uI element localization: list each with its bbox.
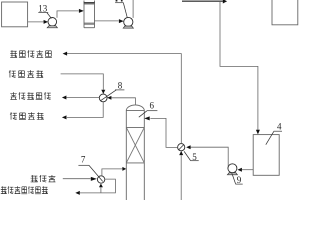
wire column6 vapor line to condenser 8 [111,98,135,105]
wire mixer5 left to column 6 [150,118,177,147]
svg-text:8: 8 [118,81,123,91]
arrow down into condenser 8 [101,90,105,94]
arrow condensate recovery [62,96,67,100]
arrow into column 6 right side [144,116,150,120]
label 冷凝液回收 [10,92,50,100]
wire mixer5 bottom feed (from below image) [180,155,182,200]
arrow into vessel 4 top [256,130,260,135]
svg-text:9: 9 [237,175,242,185]
svg-text:6: 6 [150,101,155,111]
arrow into mixer 5 right [186,145,190,149]
wire column C2 outlet [95,20,119,22]
arrow cooling water out [62,115,67,119]
arrow up into mixer 5 [179,151,183,155]
wire steam in [63,178,91,180]
wire heater7 to column6 bottom [102,169,123,176]
wire condensate recovery out [67,97,100,99]
arrow steam into heater 7 [91,177,97,181]
mixer 5 [178,144,185,151]
pump 13 [48,18,57,27]
vessel 3 (top-right, cropped by image edge) [272,0,298,25]
label 蒸汽冷凝液回收 [1,186,48,194]
label 8 leader through circle [100,90,116,101]
svg-text:4: 4 [277,122,282,132]
wire down-and-over to vessel 4 [220,1,258,130]
wire mixer5 up to final-water header [67,54,181,144]
wire cooling water in [61,74,104,90]
column C2 (small top column) [84,1,95,28]
label 循环水进 [9,70,43,78]
wire top-right cropped line with arrow [182,0,223,2]
label 循环水出 [10,112,44,120]
label 蒸汽进 [31,175,56,182]
arrow into pump 12 [119,19,124,23]
arrow final concentrated water out [63,52,68,56]
svg-text:5: 5 [192,152,197,162]
arrow steam condensate recovery [75,191,80,195]
condenser 8 [99,94,107,102]
column 6 (stripper with packing) [126,105,144,200]
arrow up into heater 7 [99,184,103,188]
arrow into column 6 left [122,167,126,171]
wire pump13 discharge [57,11,79,18]
arrow into condenser 8 right [107,96,111,100]
tank T1 (top-left feed tank) [2,2,28,27]
label 12 (cropped): glyph stubs + underline + leader [116,0,118,2]
wire pump12 discharge (runs off top edge) [132,0,134,18]
wire heater7 recirculation loop [80,179,115,193]
label 最终浓水出 [10,50,52,58]
svg-text:13: 13 [38,3,48,13]
svg-text:7: 7 [81,155,86,165]
wire tank outlet [28,21,44,23]
wire cooling water out [67,102,103,118]
wire vessel4 outlet [242,169,253,171]
vessel 4 (bottom-right tank) [253,135,279,176]
wire loop branch up into heater 7 [100,187,102,193]
wire pump9 discharge to mixer 5 [190,147,228,166]
arrow into column C2 [79,9,84,13]
arrow into pump 13 [44,20,48,24]
arrow into pump 9 [237,168,242,172]
heater 7 [97,176,104,183]
pump 12 (label cropped at top) [124,17,133,26]
pump 9 [228,164,237,173]
